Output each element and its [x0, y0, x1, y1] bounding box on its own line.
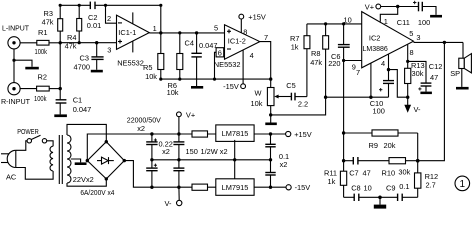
junction bus C7	[342, 159, 345, 162]
svg-text:C4: C4	[185, 38, 194, 47]
resistor R5	[143, 33, 164, 81]
svg-text:0.047: 0.047	[73, 105, 92, 114]
capacitor C4	[185, 33, 218, 86]
svg-text:C7: C7	[349, 168, 358, 177]
wire IC1-2 output	[260, 42, 271, 88]
junction pin4 node	[387, 68, 390, 71]
capacitor 0.22 upper	[173, 134, 184, 160]
wire jack to R1	[20, 42, 37, 44]
junction feedback to pot	[269, 77, 272, 80]
svg-text:LM7915: LM7915	[222, 183, 249, 192]
transformer primary	[50, 146, 53, 171]
svg-text:6: 6	[218, 49, 222, 58]
capacitor C3	[74, 43, 104, 72]
speaker SP	[450, 54, 471, 87]
svg-text:5: 5	[214, 24, 218, 33]
svg-text:8: 8	[410, 48, 414, 57]
svg-text:30k: 30k	[412, 69, 424, 78]
svg-text:7: 7	[356, 68, 360, 77]
ground C1	[54, 114, 67, 117]
junction pin7 ground	[369, 96, 372, 99]
svg-text:30k: 30k	[398, 168, 410, 177]
wire pin6 stub	[215, 52, 225, 79]
wire pin4 to V- rail	[389, 70, 408, 98]
svg-text:47k: 47k	[42, 17, 54, 26]
svg-text:100: 100	[373, 107, 385, 116]
svg-text:C8: C8	[351, 183, 360, 192]
node input column	[59, 31, 61, 99]
wire feedback bus IC1-2	[161, 78, 271, 80]
junction bottom ground	[378, 196, 382, 200]
junction pin2 drop	[104, 4, 107, 7]
bridge rectifier 6A/200V	[87, 142, 124, 179]
label 0.1 x2	[279, 152, 289, 169]
svg-text:0.047: 0.047	[199, 41, 218, 50]
ground C12	[420, 92, 432, 95]
ground C11	[422, 7, 442, 18]
wire pin8 stub	[407, 45, 409, 62]
op-amp IC1-2	[214, 25, 260, 69]
junction jack link	[12, 59, 15, 62]
svg-text:C11: C11	[397, 18, 410, 27]
resistor R2	[34, 73, 49, 103]
resistor R3	[42, 5, 63, 31]
resistor R11	[324, 161, 347, 198]
junction 0.1 top	[269, 132, 272, 135]
svg-text:2: 2	[107, 14, 111, 23]
svg-text:1k: 1k	[328, 177, 336, 186]
junction bridge bottom	[105, 177, 108, 180]
junction pin6 drop	[213, 78, 216, 81]
junction 0.22 top	[177, 132, 180, 135]
capacitor 0.1 lower	[265, 160, 275, 187]
junction 22000 top	[150, 132, 153, 135]
svg-text:0.01: 0.01	[87, 21, 101, 30]
label 0.22 x2	[159, 140, 173, 156]
junction top wire right corner	[159, 4, 162, 7]
junction R8 bottom	[324, 96, 327, 99]
label 22000/50V x2	[127, 116, 161, 133]
wire pin9 stub	[344, 60, 362, 62]
svg-text:3: 3	[107, 45, 111, 54]
transformer secondary	[67, 135, 71, 183]
svg-text:V-: V-	[165, 199, 173, 208]
svg-text:x2: x2	[162, 147, 170, 156]
wire output LM3886	[414, 41, 464, 43]
wire R2 to node	[49, 88, 60, 90]
svg-text:C5: C5	[286, 81, 295, 90]
ground C3	[91, 70, 103, 73]
svg-text:1: 1	[460, 179, 466, 190]
svg-text:NE5532: NE5532	[214, 60, 241, 69]
ground center tap	[71, 159, 87, 165]
resistor R6	[167, 33, 183, 97]
wire pin4 stub	[388, 54, 390, 70]
svg-text:L-INPUT: L-INPUT	[2, 24, 29, 33]
ground C4	[191, 86, 203, 89]
svg-text:R8: R8	[311, 49, 320, 58]
svg-text:1k: 1k	[291, 42, 299, 51]
junction bus R9	[342, 131, 345, 134]
wire switch to primary	[47, 141, 53, 146]
svg-text:R1: R1	[38, 28, 47, 37]
capacitor C5	[286, 81, 308, 108]
svg-text:100k: 100k	[34, 94, 47, 103]
junction R2 node	[59, 87, 62, 90]
junction 0.22 mid	[177, 158, 180, 161]
svg-text:22Vx2: 22Vx2	[73, 175, 94, 184]
terminal +15V IC1-2	[239, 13, 266, 33]
junction R8 top	[324, 22, 327, 25]
svg-text:100: 100	[418, 18, 430, 27]
svg-text:100k: 100k	[35, 47, 48, 56]
svg-text:C9: C9	[386, 183, 395, 192]
wire jack to R2	[20, 88, 36, 90]
svg-text:8: 8	[243, 28, 247, 37]
wire ground bus mid	[326, 96, 389, 98]
wire pot bottom	[270, 106, 272, 115]
wire input to pin3	[60, 42, 116, 44]
svg-text:1/2W x2: 1/2W x2	[201, 147, 228, 156]
wire gain ground row	[344, 196, 355, 198]
svg-text:+15V: +15V	[248, 13, 266, 22]
svg-text:7: 7	[264, 33, 268, 42]
plug AC	[1, 150, 17, 181]
resistor R13	[405, 61, 425, 97]
transformer core	[59, 135, 62, 184]
wire ground mid rail	[152, 159, 271, 161]
wire pin8 to C12	[408, 61, 426, 82]
ground speaker	[456, 87, 469, 90]
resistor R10	[358, 158, 418, 178]
wire regulator grounds	[233, 140, 236, 179]
ground input shield	[14, 60, 39, 69]
svg-text:10: 10	[344, 15, 352, 24]
wire V+ rail top	[381, 6, 419, 8]
wire output to speaker	[462, 42, 464, 58]
capacitor C9	[380, 182, 418, 201]
junction output node	[159, 31, 162, 34]
ground bottom network	[374, 197, 386, 208]
resistor R12	[415, 161, 439, 198]
svg-text:0.1: 0.1	[399, 182, 409, 191]
junction pin1 V+	[396, 5, 399, 8]
svg-text:C1: C1	[73, 96, 82, 105]
regulator LM7915	[216, 179, 254, 196]
svg-text:4700: 4700	[74, 62, 90, 71]
capacitor C11	[397, 1, 430, 27]
resistor R9	[344, 130, 418, 150]
svg-text:C3: C3	[80, 53, 89, 62]
svg-text:C12: C12	[429, 62, 443, 71]
junction pin9	[342, 59, 345, 62]
junction R6 bottom	[178, 78, 181, 81]
junction R5 bottom	[159, 78, 162, 81]
junction 22000 bottom	[150, 186, 153, 189]
resistor 150 bottom	[192, 184, 208, 190]
ground pot	[265, 115, 277, 125]
junction C3 tap	[95, 41, 98, 44]
svg-text:1: 1	[153, 24, 157, 33]
junction R4 top	[78, 4, 81, 7]
svg-text:1: 1	[384, 17, 388, 26]
svg-text:x2: x2	[280, 160, 288, 169]
svg-text:+15V: +15V	[294, 130, 312, 139]
svg-text:LM7815: LM7815	[222, 129, 249, 138]
wire pin7 stub	[370, 63, 372, 97]
wire secondary bottom to bridge	[67, 179, 106, 186]
wire input rail LM3886	[307, 23, 362, 25]
wire plug to switch	[16, 141, 27, 151]
capacitor C8	[351, 183, 380, 201]
svg-text:R-INPUT: R-INPUT	[1, 97, 30, 106]
wire LM7915 out	[254, 186, 286, 188]
capacitor C6	[328, 24, 350, 68]
wire top feedback right	[95, 4, 161, 6]
terminal V-	[165, 187, 182, 208]
svg-text:AC: AC	[6, 172, 17, 181]
wire feedback drop	[160, 5, 162, 33]
svg-text:-15V: -15V	[295, 183, 311, 192]
svg-text:-15V: -15V	[223, 82, 239, 91]
svg-text:POWER: POWER	[17, 127, 39, 136]
resistor R1	[35, 28, 50, 56]
capacitor C1	[56, 96, 92, 115]
pin 6 label box	[216, 48, 224, 58]
terminal +15V output	[286, 130, 312, 139]
svg-text:2.2: 2.2	[298, 99, 308, 108]
regulator LM7815	[216, 125, 254, 141]
terminal -15V output	[286, 183, 310, 192]
wire top feedback left	[60, 4, 90, 6]
junction R1 node	[59, 41, 62, 44]
junction R6 top	[178, 31, 181, 34]
terminal -15V IC1-2	[223, 50, 245, 91]
wire pot ground to R8 bottom	[271, 97, 326, 115]
svg-text:NE5532: NE5532	[117, 58, 144, 67]
wire secondary top to bridge	[67, 124, 106, 141]
junction pin8 node	[406, 60, 409, 63]
op-amp U2 IC2 LM3886	[362, 12, 414, 68]
svg-text:SP: SP	[450, 69, 460, 78]
svg-text:6A/200V x4: 6A/200V x4	[80, 188, 114, 197]
junction feedback node	[416, 159, 420, 163]
resistor R8	[310, 24, 328, 97]
power V- arrow	[404, 97, 421, 114]
junction R4 bottom	[78, 41, 81, 44]
svg-text:4: 4	[250, 51, 254, 60]
wire pin1 V+ jog	[380, 7, 397, 22]
capacitor C10	[370, 70, 394, 116]
junction pot ground	[269, 113, 272, 116]
junction 0.1 bottom	[269, 186, 272, 189]
svg-text:10k: 10k	[251, 99, 263, 108]
switch POWER	[27, 135, 47, 143]
wire IC1-1 output to IC1-2 pin5	[149, 32, 224, 34]
svg-text:V-: V-	[414, 105, 422, 114]
label 150 1/2W x2	[186, 147, 228, 156]
resistor 150 top	[192, 131, 208, 137]
svg-text:R9: R9	[369, 141, 378, 150]
junction bridge right	[123, 159, 126, 162]
svg-text:R2: R2	[38, 73, 47, 82]
capacitor 22000/50V lower	[146, 160, 157, 187]
svg-text:220: 220	[328, 59, 340, 68]
svg-text:LM3886: LM3886	[363, 46, 388, 53]
wire output feedback drop	[418, 42, 445, 160]
capacitor C2	[87, 2, 101, 30]
svg-text:2.7: 2.7	[426, 181, 436, 190]
svg-text:5: 5	[409, 29, 413, 38]
junction 22000 mid	[150, 158, 153, 161]
wire primary return	[16, 168, 53, 180]
svg-text:47: 47	[363, 168, 371, 177]
resistor R4	[65, 5, 82, 50]
svg-text:IC2: IC2	[369, 33, 381, 42]
wire bridge minus to bottom rail	[124, 161, 216, 188]
node circled 1	[455, 176, 470, 191]
terminal V+ LM3886	[365, 3, 381, 12]
junction C6 top	[342, 22, 345, 25]
svg-text:10k: 10k	[167, 88, 179, 97]
svg-text:R10: R10	[382, 168, 396, 177]
capacitor 0.1 upper	[265, 134, 275, 160]
capacitor C7	[344, 157, 371, 177]
junction output feedback tap	[443, 41, 446, 44]
svg-text:IC1-2: IC1-2	[228, 37, 246, 46]
svg-text:10k: 10k	[145, 72, 157, 81]
capacitor C12	[418, 62, 442, 91]
junction bridge top	[105, 140, 108, 143]
capacitor 22000/50V upper	[146, 134, 157, 160]
svg-text:3: 3	[416, 33, 420, 42]
svg-text:20k: 20k	[384, 141, 396, 150]
svg-text:x2: x2	[137, 124, 145, 133]
op-amp IC1-1	[117, 12, 150, 67]
wire inverting bus	[343, 47, 345, 161]
wire LM7815 out	[254, 133, 286, 135]
connector L-INPUT jack	[8, 37, 20, 49]
resistor R7	[290, 24, 310, 97]
svg-text:150: 150	[186, 147, 198, 156]
svg-text:R5: R5	[143, 63, 152, 72]
svg-text:V+: V+	[186, 110, 195, 119]
svg-text:10: 10	[364, 183, 372, 192]
svg-text:47: 47	[430, 73, 438, 82]
junction C4 top	[195, 31, 198, 34]
wire bridge plus to top rail	[87, 134, 216, 161]
connector R-INPUT jack	[8, 83, 20, 95]
junction R3 top corner	[59, 4, 62, 7]
svg-text:V+: V+	[365, 3, 374, 12]
junction 0.1 mid	[269, 158, 272, 161]
wire R1 to input node	[49, 42, 60, 44]
terminal V+	[177, 110, 196, 134]
capacitor 0.22 lower	[173, 160, 184, 187]
svg-text:4: 4	[381, 59, 385, 68]
wire pin2 stub	[106, 5, 117, 23]
svg-text:IC1-1: IC1-1	[118, 28, 136, 37]
junction 0.22 bottom	[177, 186, 180, 189]
wire R9 riser	[417, 133, 419, 161]
junction R13 V-	[406, 96, 409, 99]
svg-text:47k: 47k	[310, 58, 322, 67]
potentiometer W	[251, 88, 292, 109]
svg-text:W: W	[255, 89, 262, 98]
junction bridge left	[86, 159, 89, 162]
wire between jacks	[13, 49, 15, 83]
